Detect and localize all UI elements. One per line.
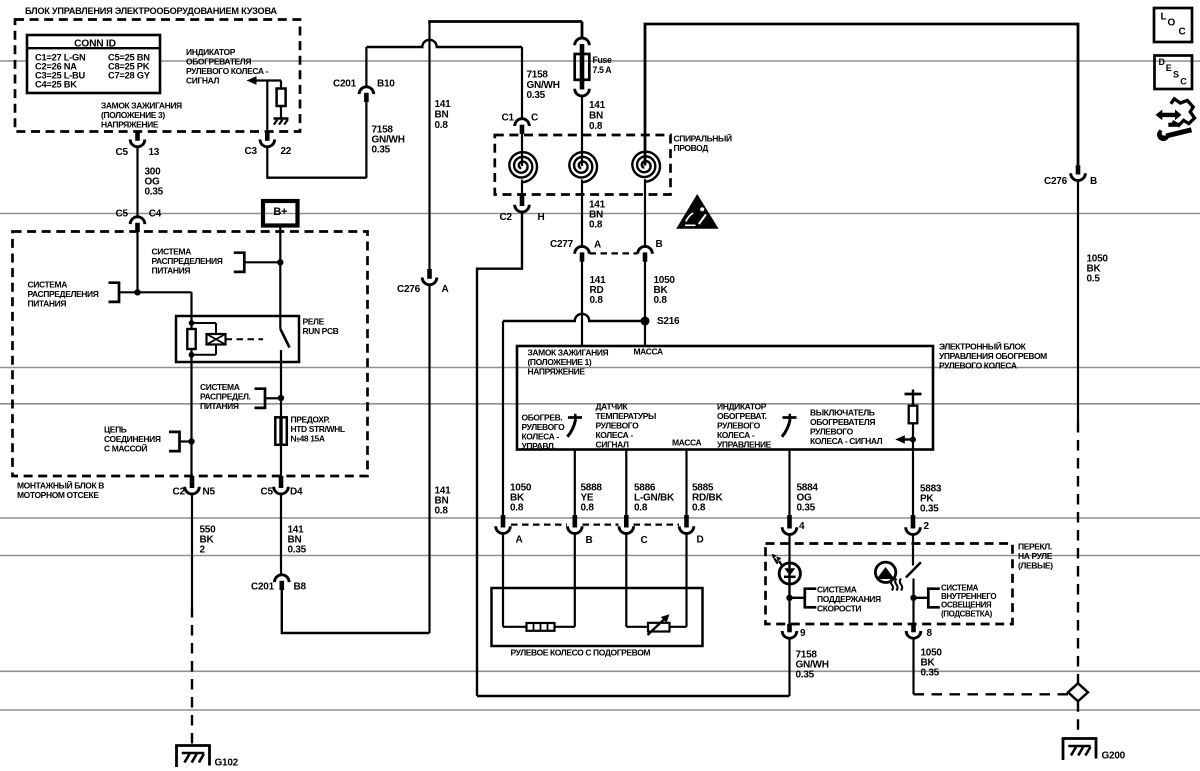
temp sensor (variable resistor) — [648, 614, 670, 635]
svg-text:(ПОЛОЖЕНИЕ 3): (ПОЛОЖЕНИЕ 3) — [101, 110, 165, 120]
wire pin8 to splice pack (dashed) — [914, 693, 1069, 695]
svg-text:C4=25 BK: C4=25 BK — [35, 80, 77, 90]
svg-text:C5: C5 — [261, 487, 274, 498]
splice S216 — [641, 317, 650, 326]
svg-text:НАПРЯЖЕНИЕ: НАПРЯЖЕНИЕ — [528, 367, 586, 377]
svg-text:0.8: 0.8 — [435, 120, 449, 131]
connector SW pin C — [624, 515, 629, 528]
svg-text:0.8: 0.8 — [589, 121, 603, 132]
svg-text:141: 141 — [435, 99, 452, 110]
svg-text:0.8: 0.8 — [510, 503, 524, 514]
relay coil — [187, 320, 225, 358]
svg-text:ПРОВОД: ПРОВОД — [674, 143, 709, 153]
svg-text:C: C — [531, 113, 538, 124]
svg-text:B: B — [656, 239, 663, 250]
connector C201 pin B8 — [275, 575, 290, 582]
bracket: power distribution (top) — [234, 253, 245, 272]
label: 141 BN 0.8 (riser) — [435, 486, 452, 517]
svg-text:0.8: 0.8 — [590, 295, 604, 306]
wire to C3 — [266, 81, 268, 132]
label: interior lighting system — [941, 583, 996, 618]
svg-text:C5: C5 — [116, 147, 129, 158]
svg-text:ПИТАНИЯ: ПИТАНИЯ — [152, 266, 191, 276]
label: 1050 BK 0.8 (B) — [654, 275, 676, 306]
connector C201 pin B10 — [359, 87, 374, 94]
svg-text:0.8: 0.8 — [634, 503, 648, 514]
wire element to B — [555, 626, 575, 628]
wire 1050 BK 0.5 — [1077, 180, 1079, 422]
top bus wire (left) — [428, 20, 582, 23]
label: 1050 BK 0.8 (A) — [510, 483, 532, 514]
svg-text:B10: B10 — [377, 79, 395, 90]
svg-text:13: 13 — [149, 147, 160, 158]
svg-text:C1: C1 — [502, 113, 515, 124]
connector SW pin D — [684, 515, 689, 528]
svg-text:РУЛЕВОГО: РУЛЕВОГО — [810, 427, 854, 437]
svg-text:S: S — [1173, 69, 1179, 79]
svg-text:GN/WH: GN/WH — [527, 80, 560, 91]
svg-text:МОТОРНОМ ОТСЕКЕ: МОТОРНОМ ОТСЕКЕ — [17, 490, 99, 500]
label: 550 BK 2 — [200, 525, 217, 556]
label: heater switch signal — [810, 408, 883, 447]
svg-text:RUN PCB: RUN PCB — [303, 326, 339, 336]
heated steering wheel box — [492, 588, 703, 646]
svg-text:0.8: 0.8 — [589, 220, 603, 231]
coil 1 — [521, 134, 523, 167]
svg-text:ИНДИКАТОР: ИНДИКАТОР — [717, 402, 767, 412]
svg-text:BN: BN — [435, 110, 449, 121]
splice S216 wire (hop) — [503, 314, 645, 321]
svg-text:СИСТЕМА: СИСТЕМА — [817, 585, 857, 595]
node: ignition feed junction — [134, 289, 140, 295]
wire diamond to G200 (dashed) — [1077, 701, 1079, 737]
wire bracket to B+ node — [244, 261, 280, 263]
svg-text:22: 22 — [281, 146, 292, 157]
svg-text:РУЛЕВОГО КОЛЕСА -: РУЛЕВОГО КОЛЕСА - — [186, 66, 269, 76]
svg-text:РУЛЕВОГО: РУЛЕВОГО — [522, 422, 566, 432]
wire LED to pin 9 — [788, 598, 790, 624]
svg-text:N5: N5 — [203, 487, 216, 498]
svg-text:ВНУТРЕННЕГО: ВНУТРЕННЕГО — [941, 592, 996, 601]
connector C277 pin B — [638, 246, 653, 253]
svg-text:КОЛЕСА -: КОЛЕСА - — [717, 430, 755, 440]
svg-text:7.5 A: 7.5 A — [593, 65, 613, 75]
svg-text:C3: C3 — [245, 146, 258, 157]
wire bracket to ground node — [180, 440, 192, 442]
label: 7158 GN/WH 0.35 (pin9) — [796, 650, 829, 681]
svg-text:ПОДДЕРЖАНИЯ: ПОДДЕРЖАНИЯ — [817, 594, 881, 604]
svg-text:0.8: 0.8 — [654, 295, 668, 306]
svg-text:L: L — [1161, 12, 1167, 23]
svg-text:ВЫКЛЮЧАТЕЛЬ: ВЫКЛЮЧАТЕЛЬ — [810, 408, 875, 418]
connector C5/C4 — [130, 217, 145, 224]
bracket: ground circuit — [169, 432, 180, 451]
svg-text:ПИТАНИЯ: ПИТАНИЯ — [28, 299, 67, 309]
LED indicator — [779, 563, 800, 598]
label: 141 BN 0.8 (fuse) — [589, 100, 606, 132]
CONN ID table — [27, 35, 160, 93]
module signal arrow — [895, 435, 905, 444]
wire H to lower run — [477, 212, 522, 697]
label: cruise control system — [817, 585, 881, 614]
label: RUN PCB relay — [303, 317, 339, 337]
label: ignition lock (position 3) voltage — [101, 101, 182, 130]
svg-text:C: C — [641, 535, 648, 546]
svg-text:РЕЛЕ: РЕЛЕ — [303, 317, 325, 327]
svg-text:СИСТЕМА: СИСТЕМА — [28, 280, 68, 290]
underhood electrical center dashed box — [13, 232, 368, 477]
svg-text:B8: B8 — [294, 582, 307, 593]
label: 141 BN 0.8 (mid) — [589, 200, 606, 231]
svg-text:HTD STR/WHL: HTD STR/WHL — [291, 424, 345, 434]
wire riser to C276 A — [428, 284, 430, 633]
label: 141 RD 0.8 — [590, 275, 607, 306]
ground G200 — [1062, 739, 1098, 761]
relay actuation dashed link — [226, 338, 264, 340]
svg-text:КОЛЕСА -: КОЛЕСА - — [522, 432, 560, 442]
fuse 7.5 A — [575, 38, 590, 96]
svg-text:СИСТЕМА: СИСТЕМА — [941, 583, 979, 592]
svg-text:ОСВЕЩЕНИЯ: ОСВЕЩЕНИЯ — [941, 601, 992, 610]
svg-text:B+: B+ — [273, 206, 287, 218]
svg-text:РАСПРЕДЕЛ.: РАСПРЕДЕЛ. — [200, 392, 251, 402]
svg-text:РУЛЕВОЕ КОЛЕСО С ПОДОГРЕВОМ: РУЛЕВОЕ КОЛЕСО С ПОДОГРЕВОМ — [511, 648, 651, 658]
svg-text:0.35: 0.35 — [288, 545, 307, 556]
node: fuse feed junction — [278, 395, 284, 401]
connector pin 2 — [911, 515, 916, 529]
label: underhood electrical center — [17, 480, 104, 501]
bracket: cruise control — [805, 589, 817, 608]
wire 1050 BK 0.8 (B) — [644, 261, 646, 346]
module switch 1 — [567, 414, 582, 437]
label: power distribution (right) — [200, 382, 251, 411]
svg-text:C: C — [1180, 76, 1187, 86]
wire 141 RD 0.8 — [581, 261, 583, 346]
connector SW pin B — [572, 515, 577, 528]
svg-text:РУЛЕВОГО КОЛЕСА: РУЛЕВОГО КОЛЕСА — [939, 361, 1017, 371]
heater element — [527, 623, 555, 631]
svg-text:ЦЕПЬ: ЦЕПЬ — [104, 425, 127, 435]
clockspring dashed box — [495, 135, 671, 195]
svg-text:C5: C5 — [116, 209, 129, 220]
svg-text:НАПРЯЖЕНИЕ: НАПРЯЖЕНИЕ — [101, 120, 159, 130]
svg-text:СИСТЕМА: СИСТЕМА — [152, 247, 192, 257]
node: illumination junction — [910, 595, 916, 601]
node: B+ feed junction — [277, 259, 283, 265]
bracket: interior lighting — [928, 589, 940, 608]
svg-text:РУЛЕВОГО: РУЛЕВОГО — [596, 421, 640, 431]
bracket: power distribution (left) — [109, 283, 120, 302]
svg-text:МАССА: МАССА — [634, 347, 663, 357]
svg-text:КОЛЕСА -: КОЛЕСА - — [596, 430, 634, 440]
svg-text:УПРАВЛЕНИЯ ОБОГРЕВОМ: УПРАВЛЕНИЯ ОБОГРЕВОМ — [939, 351, 1047, 361]
svg-text:№48 15A: №48 15A — [291, 434, 325, 444]
wire module pin D — [685, 450, 687, 521]
svg-text:8: 8 — [927, 628, 933, 639]
illumination lamp — [875, 562, 902, 590]
svg-text:G200: G200 — [1102, 751, 1126, 762]
svg-text:УПРАВЛ.: УПРАВЛ. — [522, 441, 556, 451]
wire module pin 4 — [788, 450, 790, 521]
svg-text:BN: BN — [589, 111, 603, 122]
svg-text:0.8: 0.8 — [692, 503, 706, 514]
connector C1 pin C — [515, 119, 530, 126]
svg-text:A: A — [442, 284, 449, 295]
wire coil3 to C277B — [644, 195, 646, 248]
svg-text:(ПОЛОЖЕНИЕ 1): (ПОЛОЖЕНИЕ 1) — [528, 357, 592, 367]
wire module pin B — [574, 450, 576, 521]
module pull-up resistor — [905, 390, 922, 450]
wire C276A to top bus — [428, 22, 430, 270]
svg-text:O: O — [1168, 18, 1176, 29]
svg-text:РАСПРЕДЕЛЕНИЯ: РАСПРЕДЕЛЕНИЯ — [152, 256, 223, 266]
wire B10 down — [365, 102, 367, 178]
svg-text:7158: 7158 — [527, 69, 549, 80]
wire fuse to D4 — [280, 445, 282, 476]
connector C3 pin 22 — [265, 132, 270, 141]
wire C into wheel — [625, 534, 627, 627]
svg-text:0.35: 0.35 — [797, 503, 816, 514]
svg-text:2: 2 — [200, 545, 206, 556]
service icon — [1156, 99, 1195, 141]
signal arrow — [247, 76, 257, 85]
svg-text:ДАТЧИК: ДАТЧИК — [596, 402, 629, 412]
label: 5886 L-GN/BK 0.8 — [634, 483, 675, 514]
wire bracket to fuse node — [265, 397, 281, 399]
wire module pin C — [625, 450, 627, 521]
fuse HTD STR/WHL No.48 15A — [275, 417, 287, 445]
svg-text:0.35: 0.35 — [921, 668, 940, 679]
svg-text:9: 9 — [800, 628, 806, 639]
relay RUN PCB box — [176, 316, 299, 362]
relay switch blade — [280, 329, 289, 348]
label: heated steering wheel indicator - signal — [186, 47, 269, 86]
wire bus to fuse — [581, 22, 584, 39]
wire C1 column — [521, 47, 523, 119]
label: 1050 BK 0.5 — [1087, 254, 1109, 285]
bracket: power distribution (right) — [255, 389, 266, 408]
svg-text:G102: G102 — [215, 758, 239, 769]
B+ terminal — [263, 201, 298, 226]
wire 141 BN 0.35 — [280, 494, 282, 576]
svg-text:НА РУЛЕ: НА РУЛЕ — [1018, 551, 1053, 561]
svg-text:МОНТАЖНЫЙ БЛОК В: МОНТАЖНЫЙ БЛОК В — [17, 480, 104, 491]
svg-text:СИСТЕМА: СИСТЕМА — [200, 382, 240, 392]
connector SW pin A — [501, 515, 506, 528]
label: module name — [939, 341, 1047, 371]
wire LED to bracket — [790, 597, 805, 599]
label: 141 BN 0.35 — [288, 525, 307, 556]
connector C5 pin D4 — [279, 476, 284, 488]
svg-text:C201: C201 — [333, 79, 357, 90]
label: ignition voltage (pos 1) — [528, 348, 609, 377]
body control module dashed box — [15, 20, 300, 132]
svg-text:B: B — [1090, 176, 1097, 187]
steering wheel switches dashed box — [766, 544, 1013, 625]
svg-text:2: 2 — [924, 521, 930, 532]
wire S216 to connector A — [502, 321, 504, 520]
label: 5885 RD/BK 0.8 — [692, 483, 723, 514]
svg-text:СПИРАЛЬНЫЙ: СПИРАЛЬНЫЙ — [674, 133, 732, 144]
svg-text:C2: C2 — [173, 487, 186, 498]
svg-text:0.8: 0.8 — [581, 503, 595, 514]
svg-text:C201: C201 — [251, 582, 275, 593]
top bus wire (right) — [645, 24, 1078, 166]
wire relay output — [280, 350, 282, 417]
svg-text:B: B — [586, 535, 593, 546]
label: steering wheel switches (left) — [1018, 542, 1053, 571]
wire A into wheel — [502, 534, 504, 627]
svg-text:СКОРОСТИ: СКОРОСТИ — [817, 604, 861, 614]
connector pin 9 — [787, 624, 792, 632]
connector C277 pin A — [575, 246, 590, 253]
svg-text:A: A — [516, 535, 523, 546]
svg-text:C: C — [1179, 27, 1186, 38]
svg-text:141: 141 — [589, 100, 606, 111]
DESC reference box — [1155, 56, 1193, 90]
svg-text:0.5: 0.5 — [1087, 274, 1101, 285]
connector pin 4 — [787, 515, 792, 529]
svg-text:4: 4 — [799, 521, 805, 532]
wire 550 BK 2 — [191, 494, 193, 608]
svg-text:СИГНАЛ: СИГНАЛ — [596, 440, 629, 450]
label: ground circuit — [104, 425, 161, 454]
svg-text:0.35: 0.35 — [372, 145, 391, 156]
svg-text:H: H — [538, 212, 545, 223]
svg-text:Fuse: Fuse — [593, 55, 612, 65]
svg-text:C4: C4 — [149, 209, 162, 220]
label: Fuse 7.5 A — [593, 55, 613, 75]
svg-text:ТЕМПЕРАТУРЫ: ТЕМПЕРАТУРЫ — [596, 411, 657, 421]
node: ground junction — [188, 438, 194, 444]
svg-text:РАСПРЕДЕЛЕНИЯ: РАСПРЕДЕЛЕНИЯ — [28, 289, 99, 299]
coil 2 — [569, 152, 597, 182]
connector C276 pin B — [1076, 165, 1081, 174]
svg-text:ЗАМОК ЗАЖИГАНИЯ: ЗАМОК ЗАЖИГАНИЯ — [101, 101, 182, 111]
svg-text:CONN ID: CONN ID — [74, 38, 116, 49]
svg-text:РУЛЕВОГО: РУЛЕВОГО — [717, 421, 761, 431]
svg-text:(ЛЕВЫЕ): (ЛЕВЫЕ) — [1018, 561, 1053, 571]
wire long run to pin 9 — [477, 695, 790, 697]
SW connector dashed link — [511, 523, 567, 525]
svg-text:УПРАВЛЕНИЕ: УПРАВЛЕНИЕ — [717, 440, 772, 450]
wire blade to junction — [912, 579, 914, 625]
connector pin 8 — [911, 624, 916, 632]
wire pin8 down — [912, 638, 914, 694]
wire to relay coil — [190, 292, 192, 323]
svg-text:МАССА: МАССА — [672, 438, 701, 448]
label: 7158 GN/WH 0.35 (B10) — [372, 125, 405, 156]
resistor R (indicator pull-up) — [280, 81, 282, 89]
svg-text:0.35: 0.35 — [920, 504, 939, 515]
wire B8 to riser — [282, 590, 430, 633]
wire pin2 into box — [912, 535, 914, 566]
svg-text:A: A — [594, 240, 601, 251]
svg-text:E: E — [1166, 63, 1172, 73]
connector C5 pin 13 — [135, 132, 140, 141]
label: 5884 OG 0.35 — [797, 483, 819, 514]
wire pin9 to run — [788, 638, 790, 696]
svg-text:ОБОГРЕВАТЕЛЯ: ОБОГРЕВАТЕЛЯ — [810, 417, 875, 427]
wire B10 up — [365, 47, 367, 87]
wire 1050 BK (dashed) — [1077, 422, 1079, 683]
ground (internal) — [274, 119, 289, 125]
connector C276 pin A — [427, 269, 432, 279]
label: 5883 PK 0.35 — [920, 484, 942, 515]
wire B10 to C3 — [267, 176, 366, 178]
svg-text:С МАССОЙ: С МАССОЙ — [104, 443, 147, 454]
svg-text:ОБОГРЕВАТЕЛЯ: ОБОГРЕВАТЕЛЯ — [186, 57, 251, 67]
wire module pin 2 — [912, 450, 914, 521]
label: heater control — [522, 413, 566, 452]
svg-text:D: D — [697, 535, 704, 546]
svg-text:ЭЛЕКТРОННЫЙ БЛОК: ЭЛЕКТРОННЫЙ БЛОК — [939, 341, 1027, 352]
svg-text:0.35: 0.35 — [796, 670, 815, 681]
label: 300 OG 0.35 — [145, 167, 164, 198]
svg-text:D4: D4 — [290, 487, 303, 498]
wire B+ down to relay — [279, 226, 281, 329]
wire coil to C2/N5 — [190, 355, 192, 476]
label: temperature sensor — [596, 402, 657, 450]
svg-text:0.8: 0.8 — [435, 506, 449, 517]
LOC reference box — [1154, 8, 1192, 42]
svg-text:ИНДИКАТОР: ИНДИКАТОР — [186, 47, 236, 57]
svg-text:ПЕРЕКЛ.: ПЕРЕКЛ. — [1018, 542, 1052, 552]
heated steering wheel control module box — [517, 346, 933, 450]
svg-text:S216: S216 — [657, 316, 680, 327]
svg-text:C276: C276 — [1044, 176, 1068, 187]
label: power distribution system (left) — [28, 280, 99, 309]
wire sensor to D — [670, 626, 687, 628]
svg-text:ЗАМОК ЗАЖИГАНИЯ: ЗАМОК ЗАЖИГАНИЯ — [528, 348, 609, 358]
ground G102 — [175, 746, 211, 768]
svg-text:C7=28 GY: C7=28 GY — [108, 71, 151, 81]
label: clockspring — [674, 133, 732, 154]
label: 141 BN 0.8 (upper) — [435, 99, 452, 131]
svg-text:0.35: 0.35 — [145, 187, 164, 198]
wire bracket to coil node — [119, 291, 192, 293]
connector C2 pin N5 — [190, 476, 195, 488]
svg-text:C2: C2 — [500, 212, 513, 223]
svg-text:D: D — [1159, 57, 1166, 67]
label: fuse HTD STR/WHL — [291, 415, 345, 444]
C277 dashed link — [590, 252, 638, 254]
svg-text:C276: C276 — [397, 284, 421, 295]
wire fuse to coil2 — [581, 96, 583, 167]
wire coil2 to C277A — [581, 195, 583, 248]
svg-text:0.35: 0.35 — [527, 90, 546, 101]
wire into underhood block — [136, 231, 138, 292]
node: LED junction — [786, 595, 792, 601]
label: power distribution system (top) — [152, 247, 223, 276]
label: 1050 BK 0.35 (pin8) — [921, 648, 943, 679]
svg-text:ПИТАНИЯ: ПИТАНИЯ — [200, 401, 239, 411]
wire 550 BK (dashed) — [191, 607, 193, 745]
connector C2 pin H — [520, 195, 525, 207]
svg-text:ОБОГРЕВ.: ОБОГРЕВ. — [522, 413, 563, 423]
svg-text:ОБОГРЕВАТ.: ОБОГРЕВАТ. — [717, 411, 767, 421]
svg-text:КОЛЕСА - СИГНАЛ: КОЛЕСА - СИГНАЛ — [810, 436, 883, 446]
splice pack diamond — [1068, 683, 1088, 701]
wire pin4 into box — [788, 535, 790, 564]
svg-text:ПРЕДОХР.: ПРЕДОХР. — [291, 415, 330, 425]
SIR warning symbol — [676, 194, 718, 229]
dimmer switch blade — [906, 562, 921, 577]
wire lamp junction to bracket — [914, 597, 929, 599]
svg-text:C277: C277 — [550, 239, 574, 250]
coil 3 — [632, 152, 660, 182]
label: 5888 YE 0.8 — [581, 483, 603, 514]
